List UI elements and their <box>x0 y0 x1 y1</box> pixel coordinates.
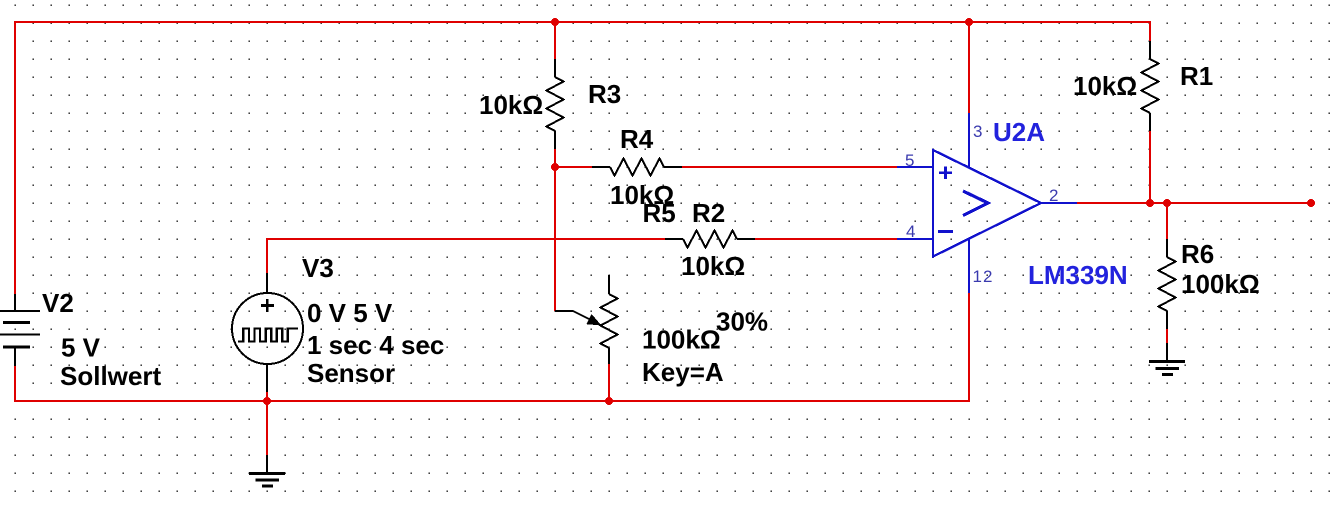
svg-text:2: 2 <box>1049 186 1058 205</box>
potentiometer body <box>601 275 618 364</box>
svg-text:3: 3 <box>973 122 982 141</box>
svg-text:10kΩ: 10kΩ <box>681 251 745 281</box>
svg-text:R6: R6 <box>1181 239 1214 269</box>
resistor R2 <box>665 231 755 248</box>
svg-text:R2: R2 <box>692 198 725 228</box>
wire R2 right to pin4 <box>755 238 897 240</box>
node junction R3/R4 <box>551 163 559 171</box>
node junction R6 out <box>1163 199 1171 207</box>
svg-text:0 V 5 V: 0 V 5 V <box>307 298 393 328</box>
wire V3 to R2 <box>267 239 665 273</box>
wire pot bottom <box>608 364 610 401</box>
wire top rail <box>15 22 1150 294</box>
svg-text:4: 4 <box>906 222 915 241</box>
wire pin3 <box>968 22 970 113</box>
node output end <box>1307 199 1315 207</box>
wire node to pot wiper <box>554 167 556 311</box>
node junction V3 bottom <box>263 397 271 405</box>
node junction pot bottom <box>605 397 613 405</box>
svg-text:V2: V2 <box>42 288 74 318</box>
wire battery bottom to ground rail <box>15 293 969 401</box>
svg-text:10kΩ: 10kΩ <box>479 90 543 120</box>
wire V3 bottom <box>266 392 268 455</box>
node junction top pin3 <box>965 18 973 26</box>
svg-text:1 sec 4 sec: 1 sec 4 sec <box>307 330 444 360</box>
source V3 <box>232 273 303 392</box>
svg-text:5 V: 5 V <box>61 333 101 363</box>
resistor R4 <box>592 159 682 176</box>
svg-text:LM339N: LM339N <box>1028 260 1128 290</box>
resistor R1 <box>1142 41 1159 131</box>
wire R3 top <box>554 22 556 59</box>
node junction R1 out <box>1146 199 1154 207</box>
svg-text:Sensor: Sensor <box>307 358 395 388</box>
wire R6 to ground <box>1166 329 1168 343</box>
svg-text:R5: R5 <box>643 198 676 228</box>
wire R1 bottom <box>1149 131 1151 203</box>
wire R4 left <box>555 166 592 168</box>
svg-text:Key=A: Key=A <box>642 357 724 387</box>
svg-text:U2A: U2A <box>993 117 1045 147</box>
wire output <box>1077 202 1311 204</box>
potentiometer wiper arrow <box>555 311 602 326</box>
svg-text:100kΩ: 100kΩ <box>1181 269 1260 299</box>
svg-text:100kΩ: 100kΩ <box>642 325 721 355</box>
svg-text:R1: R1 <box>1180 61 1213 91</box>
svg-text:5: 5 <box>905 151 914 170</box>
op-amp U2A <box>897 113 1077 293</box>
resistor R3 <box>547 59 564 149</box>
resistor R6 <box>1159 239 1176 329</box>
node junction top R3 <box>551 18 559 26</box>
battery V2 <box>0 294 40 366</box>
svg-text:V3: V3 <box>302 253 334 283</box>
wire R4 right to pin5 <box>682 166 897 168</box>
svg-text:R4: R4 <box>620 124 654 154</box>
svg-text:30%: 30% <box>716 307 768 337</box>
svg-text:10kΩ: 10kΩ <box>1073 71 1137 101</box>
wire R6 top <box>1166 203 1168 239</box>
svg-text:12: 12 <box>973 267 994 286</box>
ground below R6 <box>1149 343 1185 375</box>
ground below V3 <box>249 455 285 486</box>
svg-text:Sollwert: Sollwert <box>60 361 161 391</box>
wire R3 bottom to R4 node <box>554 149 556 167</box>
svg-text:R3: R3 <box>588 79 621 109</box>
